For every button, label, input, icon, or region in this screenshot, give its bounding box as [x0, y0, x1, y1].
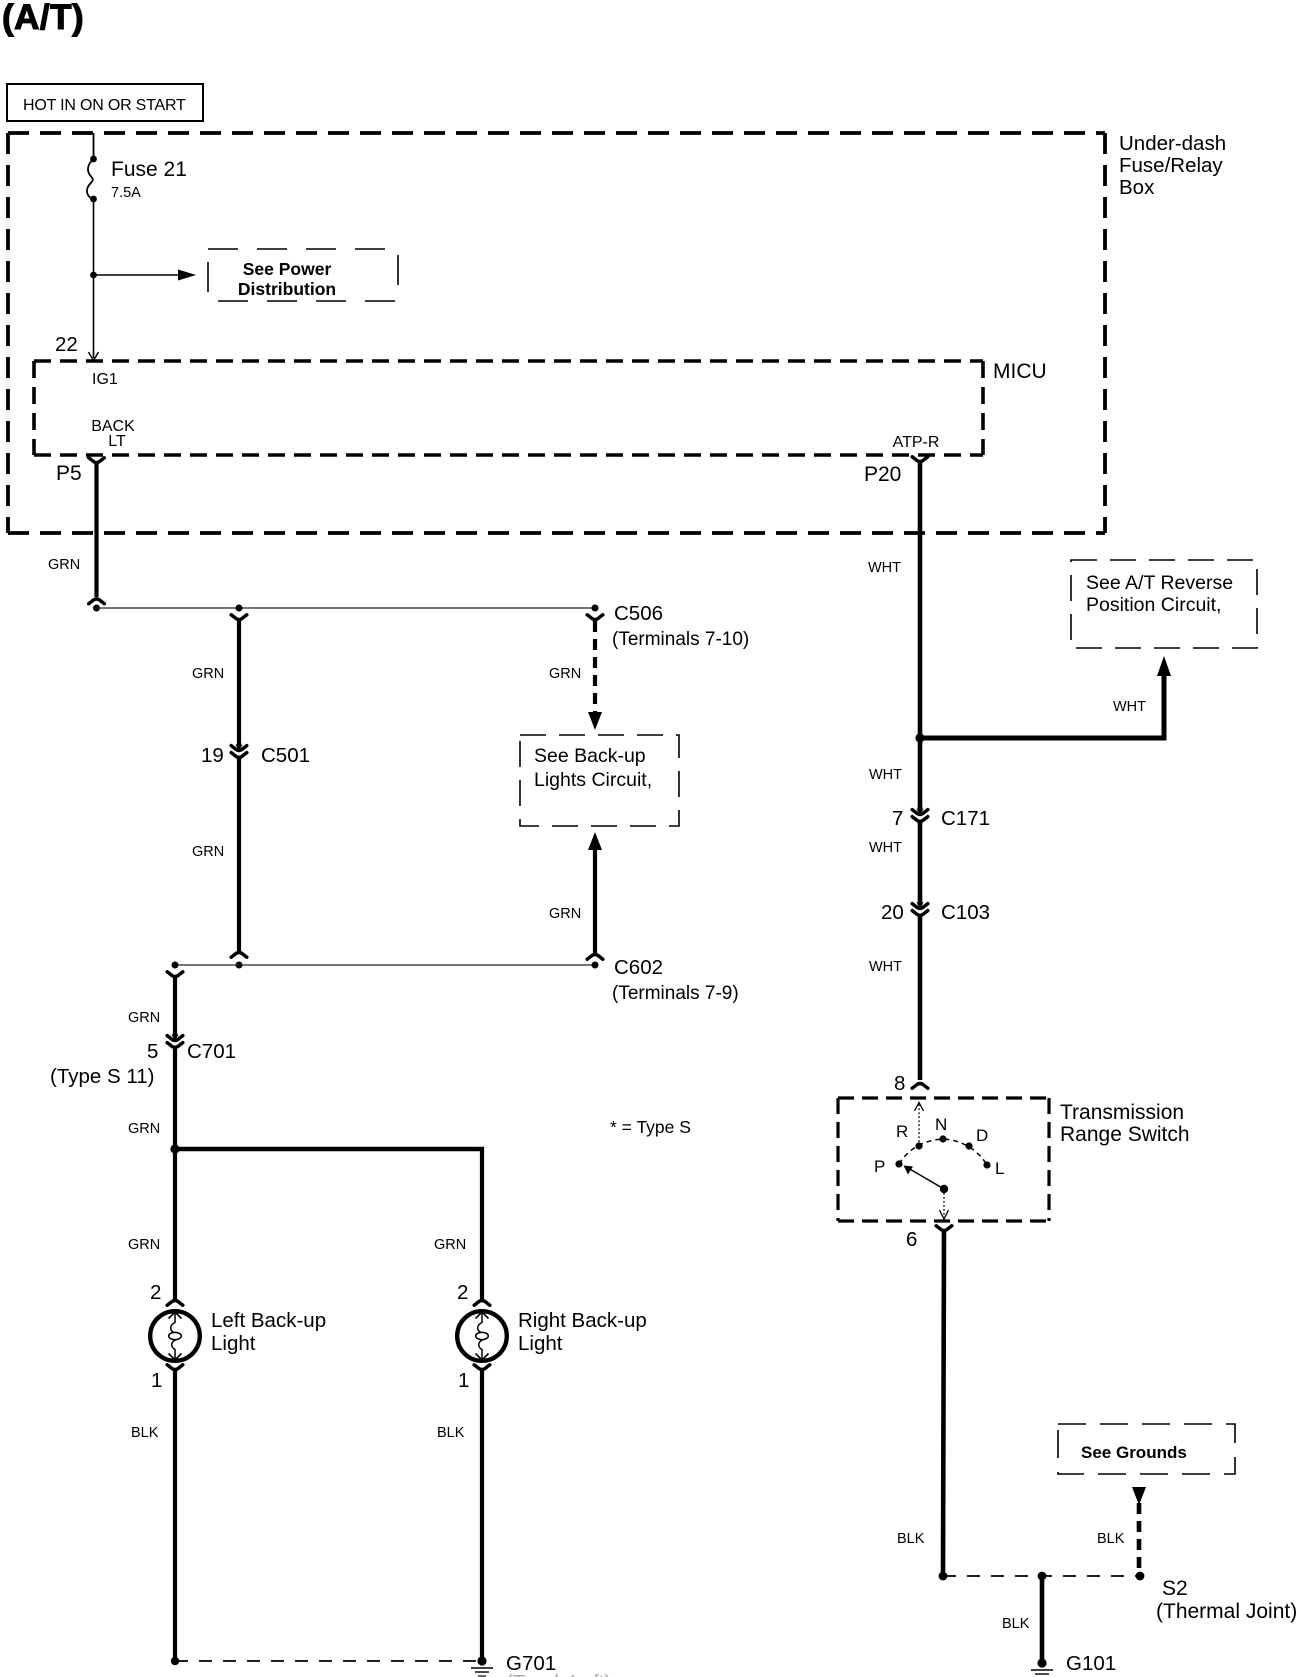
svg-text:(A/T): (A/T) [2, 0, 84, 37]
junction dot WHT [915, 733, 924, 742]
svg-text:GRN: GRN [192, 666, 224, 682]
connector cup left bulb bottom [167, 1365, 183, 1370]
see A/T reverse position circuit box (dashed) [1071, 560, 1257, 648]
svg-text:Position Circuit,: Position Circuit, [1086, 594, 1221, 616]
node B junction dot [236, 962, 243, 969]
ground G101 [1031, 1658, 1053, 1674]
svg-text:C171: C171 [941, 807, 990, 830]
switch arrow up to pin 8 [918, 1104, 920, 1146]
wire WHT C103 to switch [918, 916, 923, 1080]
svg-text:S2: S2 [1162, 1577, 1188, 1600]
switch pivot dot [940, 1185, 948, 1193]
svg-text:Fuse 21: Fuse 21 [111, 158, 187, 181]
wire bus node A [97, 607, 596, 609]
connector pin 8 cap [912, 1083, 928, 1088]
arrowhead into MICU [89, 352, 99, 361]
svg-text:2: 2 [150, 1281, 161, 1304]
label Left Back-up Light [211, 1309, 326, 1355]
label S2 (Thermal Joint) [1156, 1577, 1297, 1623]
connector C171 [912, 807, 928, 821]
label Right Back-up Light [518, 1309, 647, 1355]
label Under-dash Fuse/Relay Box [1119, 132, 1226, 199]
svg-text:8: 8 [894, 1072, 905, 1095]
svg-text:IG1: IG1 [92, 371, 118, 388]
svg-text:20: 20 [881, 901, 904, 924]
svg-text:Range Switch: Range Switch [1060, 1123, 1190, 1146]
right back-up light bulb [457, 1311, 507, 1361]
svg-text:(Thermal Joint): (Thermal Joint) [1156, 1600, 1297, 1623]
junction dot left [939, 1572, 948, 1581]
svg-text:C701: C701 [187, 1040, 236, 1063]
connector end cap C602 [587, 954, 603, 959]
svg-text:Light: Light [211, 1332, 256, 1355]
connector C701 [167, 1033, 183, 1047]
svg-text:C103: C103 [941, 901, 990, 924]
junction dot right S2 [1136, 1572, 1145, 1581]
wire from HOT to fuse [93, 133, 95, 159]
wire GRN from P5 [94, 464, 98, 597]
svg-text:C602: C602 [614, 956, 663, 979]
connector P20 [912, 457, 928, 462]
wire GRN down to C701 [173, 978, 177, 1034]
label See A/T Reverse Position Circuit [1086, 572, 1233, 616]
svg-text:GRN: GRN [128, 1010, 160, 1026]
branch junction dot [236, 605, 243, 612]
svg-text:HOT IN ON OR START: HOT IN ON OR START [23, 97, 186, 114]
svg-text:GRN: GRN [549, 906, 581, 922]
wire GRN C501 down [237, 758, 241, 951]
svg-text:Light: Light [518, 1332, 563, 1355]
svg-text:MICU: MICU [993, 360, 1047, 383]
svg-text:BLK: BLK [131, 1425, 159, 1441]
arrowhead down [588, 712, 602, 730]
junction to power distribution [90, 272, 97, 279]
svg-text:BLK: BLK [1002, 1616, 1030, 1632]
label See Back-up Lights Circuit [534, 745, 652, 791]
svg-text:BLK: BLK [897, 1531, 925, 1547]
connector pin 6 cup [936, 1226, 952, 1231]
node B left junction dot [172, 962, 179, 969]
wire GRN dashed to back-up lights [593, 621, 597, 712]
ground G701 [471, 1656, 493, 1676]
wire WHT C171 to C103 [918, 822, 923, 902]
svg-text:WHT: WHT [869, 840, 902, 856]
svg-text:GRN: GRN [128, 1237, 160, 1253]
svg-text:D: D [976, 1126, 988, 1145]
wire GRN to left bulb [173, 1149, 177, 1299]
see power distribution box (dashed) [208, 249, 398, 301]
arrowhead down from see grounds [1132, 1487, 1146, 1505]
svg-text:See Back-up: See Back-up [534, 745, 646, 767]
wire BLK right bulb to G701 [480, 1371, 484, 1658]
see back-up lights circuit box (dashed) [520, 735, 679, 826]
svg-text:Under-dash: Under-dash [1119, 132, 1226, 155]
svg-text:C501: C501 [261, 744, 310, 767]
svg-text:7: 7 [892, 807, 903, 830]
fuse 21 element [87, 159, 94, 199]
ground bus G701 (dashed) [175, 1660, 482, 1662]
svg-text:Distribution: Distribution [238, 279, 336, 299]
label HOT IN ON OR START [7, 84, 203, 121]
svg-text:(Terminals 7-9): (Terminals 7-9) [612, 983, 739, 1004]
svg-text:5: 5 [147, 1040, 158, 1063]
wire bus node B [175, 964, 595, 966]
wire GRN below C701 [173, 1048, 177, 1149]
see grounds box (dashed) [1058, 1424, 1235, 1474]
svg-text:1: 1 [151, 1369, 162, 1392]
wire WHT from P20 [918, 463, 923, 738]
fuse F21 node bottom [90, 196, 97, 203]
svg-text:WHT: WHT [869, 959, 902, 975]
fuse F21 node top [90, 156, 97, 163]
svg-text:See A/T Reverse: See A/T Reverse [1086, 572, 1233, 594]
svg-text:GRN: GRN [192, 844, 224, 860]
svg-text:(Terminals 7-10): (Terminals 7-10) [612, 629, 749, 650]
junction dot C506 [592, 605, 599, 612]
switch position dots P R N D L [895, 1160, 902, 1167]
svg-text:Lights Circuit,: Lights Circuit, [534, 769, 652, 791]
junction dot middle [1038, 1572, 1047, 1581]
switch wiper arm to P [908, 1168, 944, 1189]
svg-text:G101: G101 [1066, 1652, 1116, 1675]
svg-text:Fuse/Relay: Fuse/Relay [1119, 154, 1223, 177]
svg-text:BLK: BLK [437, 1425, 465, 1441]
ground bus S2 (dashed) [943, 1575, 1140, 1577]
svg-text:GRN: GRN [434, 1237, 466, 1253]
switch arrow down to pin 6 [943, 1189, 945, 1215]
svg-text:* = Type S: * = Type S [610, 1117, 691, 1137]
svg-text:L: L [995, 1159, 1004, 1178]
wire WHT down to C171 [918, 738, 923, 808]
wire WHT branch right [920, 674, 1164, 738]
svg-text:P20: P20 [864, 463, 901, 486]
svg-text:WHT: WHT [1113, 699, 1146, 715]
connector end cap at node A [89, 599, 105, 604]
node A junction dot [93, 605, 100, 612]
wire BLK from switch [943, 1232, 944, 1572]
svg-text:BLK: BLK [1097, 1531, 1125, 1547]
svg-text:WHT: WHT [868, 560, 901, 576]
svg-text:Box: Box [1119, 176, 1155, 199]
connector cup right bulb bottom [474, 1365, 490, 1370]
wire GRN arrow up from C602 [593, 846, 597, 953]
svg-text:22: 22 [55, 333, 78, 356]
connector cap right bulb [474, 1300, 490, 1305]
svg-text:N: N [935, 1115, 947, 1134]
wire GRN to right bulb [480, 1147, 484, 1299]
arrowhead up [588, 832, 602, 850]
wire arrow to see power distribution [94, 274, 182, 276]
connector P5 [89, 458, 105, 463]
MICU box (dashed) [34, 361, 983, 455]
connector cap left bulb [167, 1300, 183, 1305]
wire GRN branch down [237, 621, 241, 743]
svg-text:1: 1 [458, 1369, 469, 1392]
svg-text:Right Back-up: Right Back-up [518, 1309, 647, 1332]
svg-text:19: 19 [201, 744, 224, 767]
switch position labels [874, 1115, 1004, 1178]
label Transmission Range Switch [1060, 1101, 1190, 1146]
svg-text:(Trunk Left): (Trunk Left) [506, 1671, 611, 1677]
wire BLK dashed to S2 [1137, 1503, 1142, 1570]
svg-text:Transmission: Transmission [1060, 1101, 1184, 1124]
branch cup [231, 615, 247, 620]
connector C501 [231, 743, 247, 757]
switch gate arc (dashed) [899, 1139, 987, 1165]
wire fuse to MICU pin 22 [93, 199, 95, 358]
wire BLK to G101 [1040, 1576, 1045, 1659]
svg-text:ATP-R: ATP-R [893, 434, 940, 451]
connector end cap at node B [231, 952, 247, 957]
svg-text:LT: LT [108, 433, 126, 450]
under-dash fuse/relay box (dashed) [8, 133, 1105, 533]
wire split horizontal [175, 1147, 484, 1152]
svg-text:See Power: See Power [243, 259, 332, 279]
wire BLK left bulb to G701 [173, 1371, 177, 1658]
connector C506 cup [587, 615, 603, 620]
svg-text:WHT: WHT [869, 767, 902, 783]
svg-text:GRN: GRN [549, 666, 581, 682]
svg-text:GRN: GRN [48, 557, 80, 573]
svg-text:C506: C506 [614, 602, 663, 625]
left back-up light bulb [150, 1311, 200, 1361]
svg-text:(Type S 11): (Type S 11) [50, 1065, 154, 1088]
svg-text:P5: P5 [56, 462, 82, 485]
svg-text:6: 6 [906, 1228, 917, 1251]
svg-text:R: R [896, 1122, 908, 1141]
transmission range switch box (dashed) [838, 1098, 1049, 1221]
junction dot split [170, 1144, 179, 1153]
svg-text:P: P [874, 1157, 885, 1176]
svg-text:Left Back-up: Left Back-up [211, 1309, 326, 1332]
svg-text:GRN: GRN [128, 1121, 160, 1137]
label See Power Distribution [238, 259, 336, 299]
junction dot G701 left [171, 1657, 179, 1665]
svg-text:7.5A: 7.5A [111, 185, 141, 201]
label BACK LT [91, 418, 135, 450]
branch cup to C701 [167, 972, 183, 977]
connector C103 [912, 901, 928, 915]
svg-text:2: 2 [457, 1281, 468, 1304]
svg-text:See Grounds: See Grounds [1081, 1443, 1187, 1462]
junction dot C602 [592, 962, 599, 969]
arrowhead up to A/T reverse [1157, 656, 1171, 676]
